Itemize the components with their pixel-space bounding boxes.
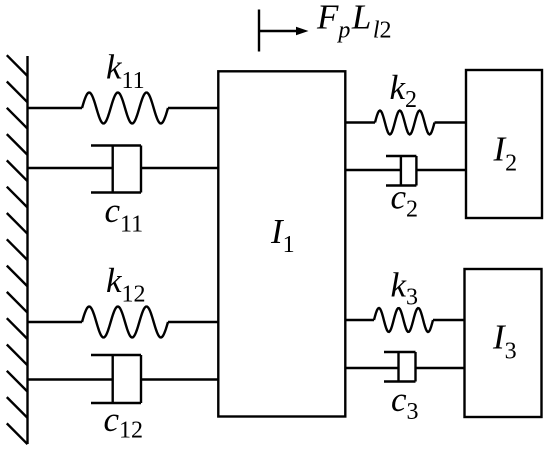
mass block I3 — [465, 269, 542, 417]
damper c12 (dashpot body) — [91, 355, 141, 403]
svg-text:FpLl2: FpLl2 — [316, 0, 392, 44]
wire spring k3 to I3 — [433, 319, 466, 321]
spring k12 — [82, 307, 168, 338]
svg-text:c12: c12 — [104, 400, 144, 444]
wire spring k2 to I2 — [435, 121, 468, 123]
wire damper c3 to I3 — [416, 367, 466, 369]
svg-text:I1: I1 — [270, 212, 295, 258]
svg-text:k12: k12 — [106, 261, 146, 308]
svg-text:I3: I3 — [492, 318, 517, 365]
svg-text:k11: k11 — [106, 48, 145, 95]
svg-text:I2: I2 — [493, 129, 518, 176]
wire I1 to spring k3 — [345, 319, 375, 321]
wire wall to damper c12 piston — [27, 378, 113, 380]
spring k11 — [82, 93, 168, 124]
force arrow FpLl2 — [259, 27, 309, 35]
force application reference line — [258, 10, 260, 52]
wire wall to spring k11 — [27, 107, 83, 109]
svg-text:k2: k2 — [390, 68, 418, 113]
damper c11 (dashpot body) — [91, 146, 141, 193]
mass block I2 — [466, 70, 542, 218]
svg-text:c2: c2 — [391, 178, 419, 223]
wire damper c12 to I1 — [141, 378, 219, 380]
damper c2 (dashpot body) — [386, 156, 416, 186]
mass block I1 — [218, 71, 345, 416]
wire I1 to spring k2 — [345, 121, 376, 123]
wire wall to spring k12 — [27, 321, 83, 323]
svg-text:c3: c3 — [391, 380, 419, 425]
wire damper c2 to I2 — [416, 169, 467, 171]
wire spring k12 to I1 — [168, 321, 219, 323]
wire I1 to damper c3 piston — [345, 367, 399, 369]
spring k2 — [375, 111, 435, 135]
damper c3 (dashpot body) — [384, 352, 416, 382]
wire wall to damper c11 piston — [27, 167, 113, 169]
wall (fixed support) — [7, 55, 28, 444]
svg-text:k3: k3 — [391, 266, 419, 311]
wire spring k11 to I1 — [168, 107, 219, 109]
spring k3 — [374, 308, 433, 332]
svg-text:c11: c11 — [105, 191, 144, 238]
wire damper c11 to I1 — [141, 167, 219, 169]
wire I1 to damper c2 piston — [345, 169, 401, 171]
